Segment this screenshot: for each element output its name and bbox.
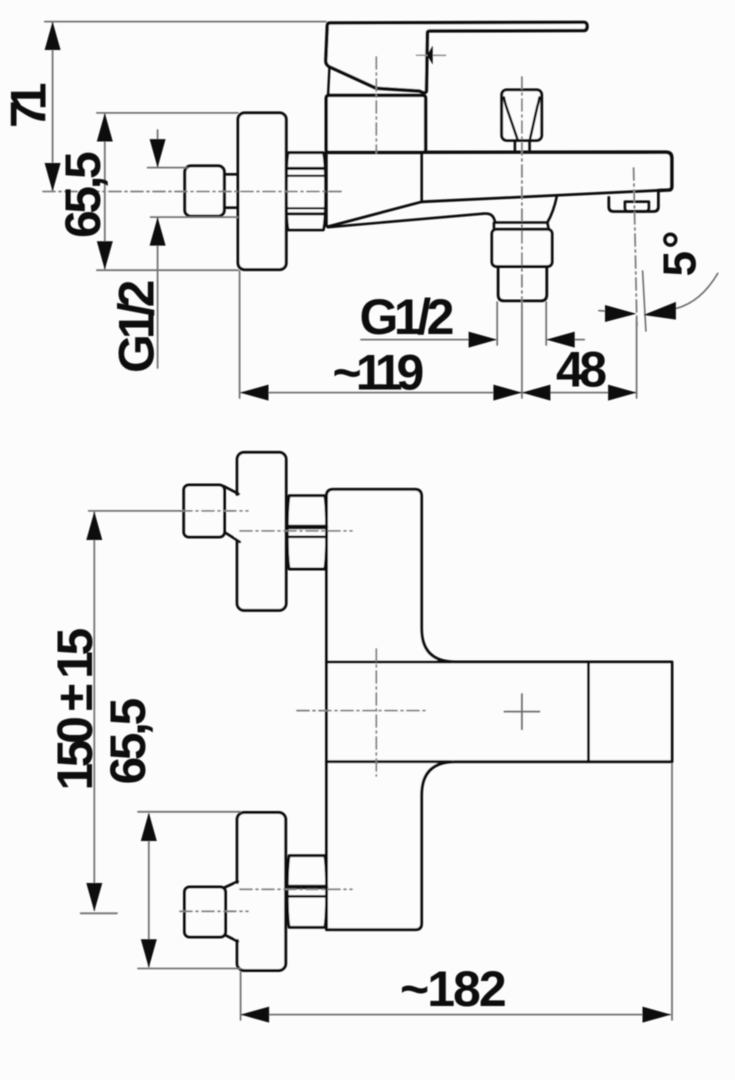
main horizontal centerline xyxy=(43,191,341,193)
dimension line ~182 xyxy=(242,1014,670,1016)
arrow 65,5 top xyxy=(97,113,113,142)
dimension line 48 xyxy=(523,392,635,394)
arrow G1/2h right (points left) xyxy=(546,332,575,348)
diverter knob cone lines xyxy=(504,98,540,139)
svg-text:G1/2: G1/2 xyxy=(360,289,453,345)
arrow G1/2h left (points right) xyxy=(469,332,498,348)
5 deg tilted solid line xyxy=(643,271,646,331)
bottom connector centerline xyxy=(180,910,248,912)
diverter/shower outlet centerline xyxy=(521,77,523,306)
spout end cap divider xyxy=(587,662,590,762)
column vertical centerline xyxy=(375,649,377,776)
handle pivot marker line xyxy=(416,54,445,56)
dimension line G1/2 horizontal xyxy=(361,339,584,341)
arrow ~182 right (points right) xyxy=(643,1007,672,1023)
extension line top connector CL (dim 150) xyxy=(89,510,182,512)
5 deg reference dash-dot line xyxy=(634,168,637,326)
5 deg arrow tail dash xyxy=(599,310,605,312)
extension tick bottom connector CL (dim 150) xyxy=(81,912,117,914)
shower boss right fillet xyxy=(547,196,557,222)
spout underside steep edge (line B) xyxy=(328,202,422,227)
svg-text:~119: ~119 xyxy=(333,345,423,401)
dimension line 65,5 xyxy=(104,115,106,269)
extension line flange bottom (dim 65,5) xyxy=(138,968,241,970)
spout front vertical edge xyxy=(420,153,423,202)
extension line wall face (dim ~182) xyxy=(240,972,242,1020)
svg-text:G1/2: G1/2 xyxy=(109,281,165,373)
body outline (column + spout arm) xyxy=(327,489,673,929)
bottom wall flange (front view) xyxy=(237,813,286,971)
cartridge housing xyxy=(326,95,425,152)
G1/2 vertical dim line upper xyxy=(157,130,159,167)
arrow 5deg right (points left) xyxy=(643,302,676,320)
bottom nut facet line thin xyxy=(288,895,326,898)
top nut facet line thin xyxy=(288,535,326,538)
dimension line 150 +/- 15 xyxy=(93,513,95,911)
bottom eccentric connector cone covering flange edge xyxy=(235,884,240,939)
extension lines shower thread (dim G1/2) xyxy=(497,302,546,345)
extension line spout tip (dim 48) xyxy=(636,318,638,398)
shower outlet collar xyxy=(494,223,549,230)
arrow 65,5b top (points up) xyxy=(141,813,157,842)
top outlet centerline xyxy=(240,530,352,532)
crosshair on spout body xyxy=(504,694,539,729)
arrowheads (black) xyxy=(45,22,676,401)
top nut facet line thick xyxy=(288,525,326,529)
diverter knob xyxy=(502,90,542,141)
lever handle (head + bar) xyxy=(326,22,587,92)
arrow 48 right (points right) xyxy=(608,385,637,401)
band horizontal centerline xyxy=(297,710,429,712)
top wall flange (front view) xyxy=(237,452,286,610)
arrow 65,5 bottom xyxy=(97,241,113,269)
arrow 150 top (points up) xyxy=(86,512,102,541)
shower outlet pipe xyxy=(498,267,547,301)
bottom nut facet line thick xyxy=(288,885,326,889)
arrow 48 left (points left, at CL) xyxy=(522,385,551,401)
svg-text:~182: ~182 xyxy=(400,961,505,1017)
aerator xyxy=(625,202,649,212)
top eccentric connector cone covering flange edge xyxy=(235,496,240,540)
arrow ~119 right (points right, at CL) xyxy=(493,385,522,401)
G1/2 vertical dim line lower xyxy=(157,218,159,368)
svg-text:48: 48 xyxy=(556,342,606,398)
G1/2 vertical dim ticks xyxy=(148,168,238,218)
diverter knob neck xyxy=(515,140,530,152)
arrow G1/2 lower (points up) xyxy=(150,217,166,246)
extension line wall face (dim ~119) xyxy=(239,271,241,398)
svg-text:150 ± 15: 150 ± 15 xyxy=(47,629,103,791)
body band bottom line across column xyxy=(327,760,452,763)
deck underside far edge (line C) with boss fillet xyxy=(328,214,495,228)
wall nut hex facet lines xyxy=(288,167,325,170)
top wall nut (front view) xyxy=(287,496,326,569)
cartridge vertical centerline xyxy=(375,57,377,153)
arrow G1/2 upper (points down) xyxy=(150,139,166,168)
arrowheads bottom view (black) xyxy=(86,512,671,1023)
eccentric connector square (side view) xyxy=(185,166,225,216)
arrow 71 bottom xyxy=(45,163,61,192)
arrow 65,5b bottom (points down) xyxy=(141,939,157,968)
top connector centerline xyxy=(180,510,248,512)
arrow ~182 left (points left) xyxy=(241,1007,270,1023)
lever neck hint line xyxy=(328,68,329,94)
extension line flange top (dim 65,5) xyxy=(97,112,238,114)
spout underside near edge (line A) xyxy=(422,190,671,202)
body lower-left edge below deck xyxy=(326,152,328,226)
dimension line 71 xyxy=(52,23,54,190)
arrow 150 bottom (points down) xyxy=(86,883,102,912)
faucet deck / spout (side view) xyxy=(326,152,672,190)
wall nut (side view, hex) xyxy=(286,153,325,230)
svg-text:65,5: 65,5 xyxy=(55,152,111,238)
dimension line 65,5 bottom xyxy=(148,815,150,967)
arrow 71 top xyxy=(45,22,61,51)
svg-text:5°: 5° xyxy=(654,229,706,277)
arrow ~119 left (points left) xyxy=(240,385,269,401)
extension line handle top (dim 71) xyxy=(45,21,326,23)
body band top line across column xyxy=(327,660,452,663)
shower outlet nut xyxy=(492,229,552,266)
spout mouth housing xyxy=(609,190,659,211)
extension line spout end (dim ~182) xyxy=(671,764,673,1021)
wall flange (side view) xyxy=(238,113,286,270)
dimension line ~119 xyxy=(242,392,521,394)
handle pivot marker arrow xyxy=(427,46,433,65)
extension line flange top (dim 65,5) xyxy=(138,811,241,813)
connector neck lines xyxy=(224,174,238,207)
5 deg arc xyxy=(676,273,718,308)
svg-text:65,5: 65,5 xyxy=(100,698,156,784)
extension line flange bottom (dim 65,5) xyxy=(97,269,238,271)
extension line shower centerline xyxy=(521,306,523,398)
arrow 5deg left (points right) xyxy=(605,305,636,322)
bottom wall nut (front view) xyxy=(287,856,326,928)
bottom outlet centerline xyxy=(240,888,352,890)
